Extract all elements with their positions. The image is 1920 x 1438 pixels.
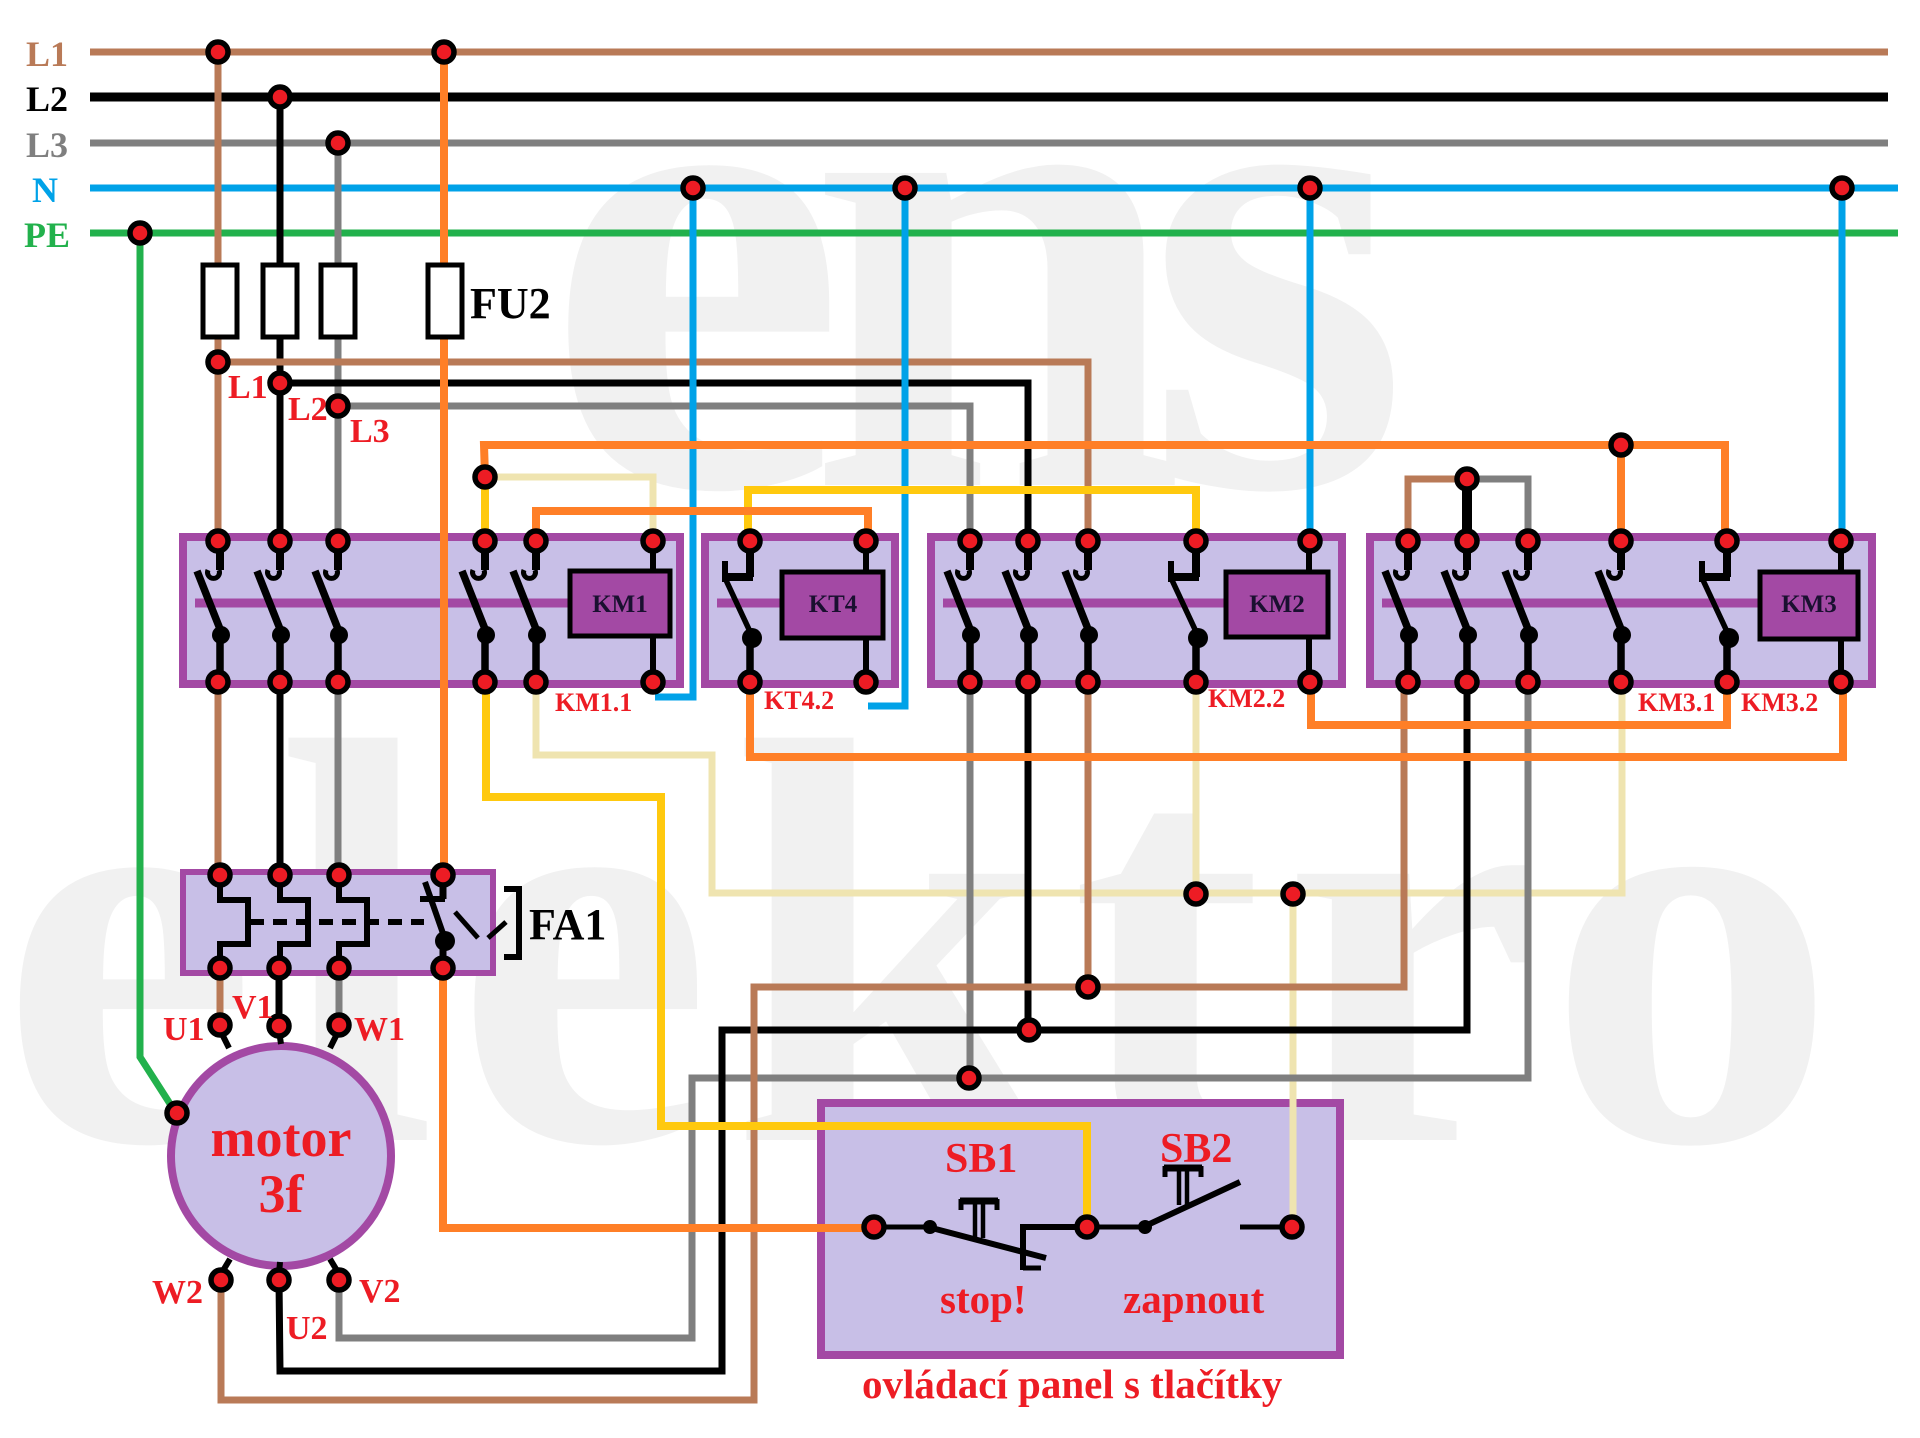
svg-text:3f: 3f	[259, 1164, 305, 1224]
svg-text:L1: L1	[26, 34, 68, 74]
svg-text:SB1: SB1	[945, 1136, 1017, 1182]
svg-text:KT4.2: KT4.2	[764, 686, 834, 715]
svg-text:KM2: KM2	[1249, 591, 1305, 618]
svg-text:L1: L1	[228, 369, 268, 406]
svg-text:KM3: KM3	[1781, 591, 1837, 618]
svg-text:motor: motor	[211, 1108, 352, 1168]
svg-text:stop!: stop!	[940, 1276, 1027, 1322]
svg-text:L3: L3	[350, 413, 390, 450]
svg-text:KM1: KM1	[592, 591, 648, 618]
svg-text:U2: U2	[286, 1310, 328, 1347]
svg-text:KM3.1: KM3.1	[1638, 688, 1715, 717]
svg-text:L3: L3	[26, 125, 68, 165]
svg-text:zapnout: zapnout	[1123, 1276, 1265, 1322]
svg-text:ovládací panel s tlačítky: ovládací panel s tlačítky	[862, 1361, 1283, 1407]
svg-text:W1: W1	[354, 1011, 405, 1048]
svg-text:V2: V2	[359, 1273, 401, 1310]
svg-text:PE: PE	[24, 215, 70, 255]
svg-text:KM3.2: KM3.2	[1741, 688, 1818, 717]
svg-text:FU2: FU2	[470, 279, 551, 328]
svg-text:L2: L2	[288, 391, 328, 428]
svg-text:L2: L2	[26, 79, 68, 119]
svg-text:W2: W2	[152, 1274, 203, 1311]
svg-text:KT4: KT4	[809, 591, 858, 618]
svg-text:V1: V1	[232, 989, 274, 1026]
svg-text:FA1: FA1	[529, 900, 606, 949]
svg-text:KM2.2: KM2.2	[1208, 684, 1285, 713]
svg-text:KM1.1: KM1.1	[555, 688, 632, 717]
svg-text:SB2: SB2	[1160, 1126, 1232, 1172]
svg-text:N: N	[32, 170, 58, 210]
svg-text:U1: U1	[163, 1011, 205, 1048]
